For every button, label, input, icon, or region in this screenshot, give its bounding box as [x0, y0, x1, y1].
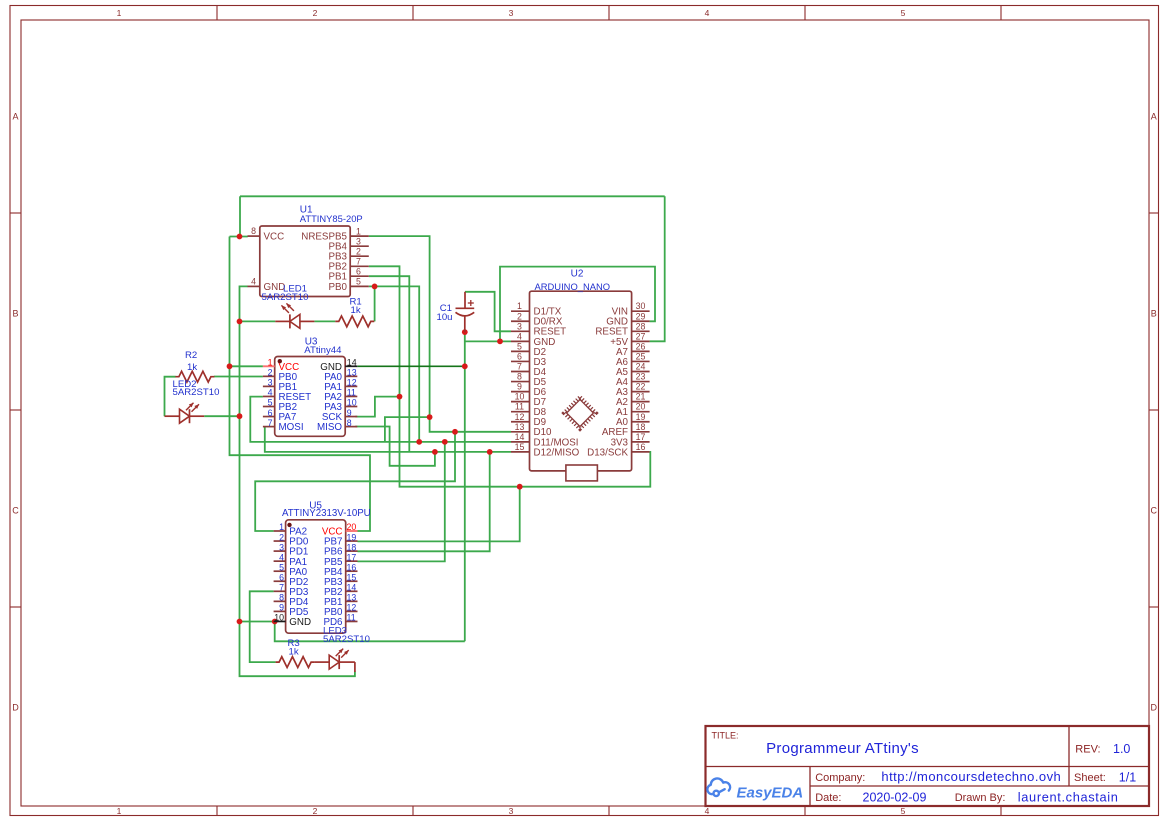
svg-text:Drawn By:: Drawn By: [955, 792, 1006, 804]
svg-text:Programmeur ATtiny's: Programmeur ATtiny's [766, 740, 919, 757]
svg-text:3: 3 [279, 542, 284, 552]
svg-text:7: 7 [356, 257, 361, 267]
svg-text:GND: GND [264, 282, 286, 293]
svg-text:6: 6 [279, 572, 284, 582]
svg-text:24: 24 [636, 362, 646, 372]
svg-text:21: 21 [636, 392, 646, 402]
svg-text:13: 13 [515, 422, 525, 432]
svg-text:1k: 1k [289, 646, 299, 657]
svg-text:REV:: REV: [1075, 744, 1100, 756]
svg-text:B: B [12, 309, 18, 319]
svg-text:5: 5 [279, 562, 284, 572]
svg-text:8: 8 [517, 372, 522, 382]
svg-text:A: A [1151, 112, 1157, 122]
svg-text:17: 17 [347, 552, 357, 562]
svg-text:15: 15 [515, 442, 525, 452]
svg-text:18: 18 [636, 422, 646, 432]
svg-text:VCC: VCC [264, 232, 285, 243]
svg-text:10: 10 [515, 392, 525, 402]
svg-text:15: 15 [347, 572, 357, 582]
svg-text:8: 8 [347, 418, 352, 428]
svg-text:23: 23 [636, 372, 646, 382]
svg-text:3: 3 [509, 806, 514, 816]
svg-text:9: 9 [517, 382, 522, 392]
svg-text:10u: 10u [436, 312, 452, 323]
svg-text:1k: 1k [351, 305, 361, 316]
svg-text:U2: U2 [571, 268, 584, 279]
svg-text:12: 12 [347, 378, 357, 388]
svg-text:29: 29 [636, 311, 646, 321]
svg-text:27: 27 [636, 331, 646, 341]
svg-text:28: 28 [636, 321, 646, 331]
svg-text:7: 7 [279, 583, 284, 593]
svg-text:B: B [1151, 309, 1157, 319]
svg-text:D: D [12, 703, 19, 713]
svg-text:5AR2ST10: 5AR2ST10 [323, 634, 370, 645]
svg-text:D13/SCK: D13/SCK [587, 447, 628, 458]
svg-text:Date:: Date: [815, 792, 841, 804]
svg-text:2: 2 [356, 246, 361, 256]
svg-text:D: D [1150, 703, 1157, 713]
svg-text:1: 1 [117, 806, 122, 816]
svg-text:6: 6 [356, 266, 361, 276]
svg-text:2: 2 [279, 532, 284, 542]
svg-text:4: 4 [517, 331, 522, 341]
svg-text:10: 10 [274, 613, 284, 623]
svg-text:1.0: 1.0 [1113, 742, 1130, 756]
svg-text:ATTINY85-20P: ATTINY85-20P [300, 213, 363, 224]
svg-text:30: 30 [636, 301, 646, 311]
svg-text:4: 4 [268, 388, 273, 398]
svg-text:12: 12 [347, 603, 357, 613]
svg-text:5: 5 [268, 398, 273, 408]
svg-text:1: 1 [279, 522, 284, 532]
svg-text:http://moncoursdetechno.ovh: http://moncoursdetechno.ovh [881, 769, 1061, 784]
svg-text:MISO: MISO [317, 422, 342, 433]
svg-text:R2: R2 [185, 350, 197, 361]
svg-text:7: 7 [268, 418, 273, 428]
svg-text:10: 10 [347, 398, 357, 408]
svg-text:6: 6 [517, 351, 522, 361]
svg-text:7: 7 [517, 362, 522, 372]
svg-text:5: 5 [901, 8, 906, 18]
svg-text:26: 26 [636, 341, 646, 351]
svg-text:1: 1 [356, 226, 361, 236]
svg-text:16: 16 [347, 562, 357, 572]
svg-text:11: 11 [347, 388, 356, 398]
svg-text:22: 22 [636, 382, 646, 392]
svg-text:Company:: Company: [815, 772, 865, 784]
svg-text:TITLE:: TITLE: [712, 731, 739, 741]
svg-text:3: 3 [509, 8, 514, 18]
svg-text:9: 9 [347, 408, 352, 418]
svg-text:4: 4 [705, 8, 710, 18]
svg-text:C: C [1150, 506, 1157, 516]
svg-text:1/1: 1/1 [1119, 771, 1136, 785]
svg-text:laurent.chastain: laurent.chastain [1018, 790, 1119, 805]
svg-text:2: 2 [313, 806, 318, 816]
svg-text:12: 12 [515, 412, 525, 422]
svg-text:2: 2 [517, 311, 522, 321]
svg-text:4: 4 [705, 806, 710, 816]
svg-text:14: 14 [515, 432, 525, 442]
svg-text:MOSI: MOSI [279, 422, 304, 433]
svg-text:GND: GND [289, 617, 311, 628]
svg-text:D12/MISO: D12/MISO [534, 447, 580, 458]
svg-text:13: 13 [347, 368, 357, 378]
svg-text:1: 1 [517, 301, 522, 311]
svg-text:5AR2ST10: 5AR2ST10 [173, 387, 220, 398]
svg-text:5: 5 [901, 806, 906, 816]
svg-text:16: 16 [636, 442, 646, 452]
svg-text:3: 3 [356, 236, 361, 246]
svg-text:19: 19 [636, 412, 646, 422]
svg-text:25: 25 [636, 351, 646, 361]
svg-text:20: 20 [347, 522, 357, 532]
svg-text:2: 2 [313, 8, 318, 18]
svg-text:11: 11 [347, 613, 356, 623]
svg-text:4: 4 [251, 276, 256, 286]
svg-text:18: 18 [347, 542, 357, 552]
svg-text:20: 20 [636, 402, 646, 412]
svg-text:13: 13 [347, 593, 357, 603]
svg-text:9: 9 [279, 603, 284, 613]
svg-text:A: A [12, 112, 18, 122]
svg-text:17: 17 [636, 432, 646, 442]
svg-text:1k: 1k [187, 362, 197, 373]
svg-text:3: 3 [517, 321, 522, 331]
svg-text:1: 1 [117, 8, 122, 18]
svg-text:8: 8 [251, 226, 256, 236]
svg-text:ATtiny44: ATtiny44 [304, 345, 342, 356]
svg-text:ATTINY2313V-10PU: ATTINY2313V-10PU [282, 508, 371, 519]
svg-text:C: C [12, 506, 19, 516]
svg-text:EasyEDA: EasyEDA [737, 785, 804, 802]
svg-text:5: 5 [356, 277, 361, 287]
svg-text:5AR2ST10: 5AR2ST10 [262, 292, 309, 303]
svg-text:Sheet:: Sheet: [1074, 772, 1106, 784]
svg-text:6: 6 [268, 408, 273, 418]
svg-text:ARDUINO_NANO: ARDUINO_NANO [535, 281, 611, 292]
svg-text:14: 14 [347, 583, 357, 593]
svg-text:5: 5 [517, 341, 522, 351]
svg-text:8: 8 [279, 593, 284, 603]
svg-text:4: 4 [279, 552, 284, 562]
svg-text:1: 1 [268, 358, 273, 368]
svg-text:11: 11 [515, 402, 524, 412]
svg-text:3: 3 [268, 378, 273, 388]
svg-text:14: 14 [347, 358, 357, 368]
svg-text:2020-02-09: 2020-02-09 [863, 791, 927, 805]
svg-text:PB0: PB0 [328, 282, 347, 293]
svg-text:2: 2 [268, 368, 273, 378]
svg-text:19: 19 [347, 532, 357, 542]
